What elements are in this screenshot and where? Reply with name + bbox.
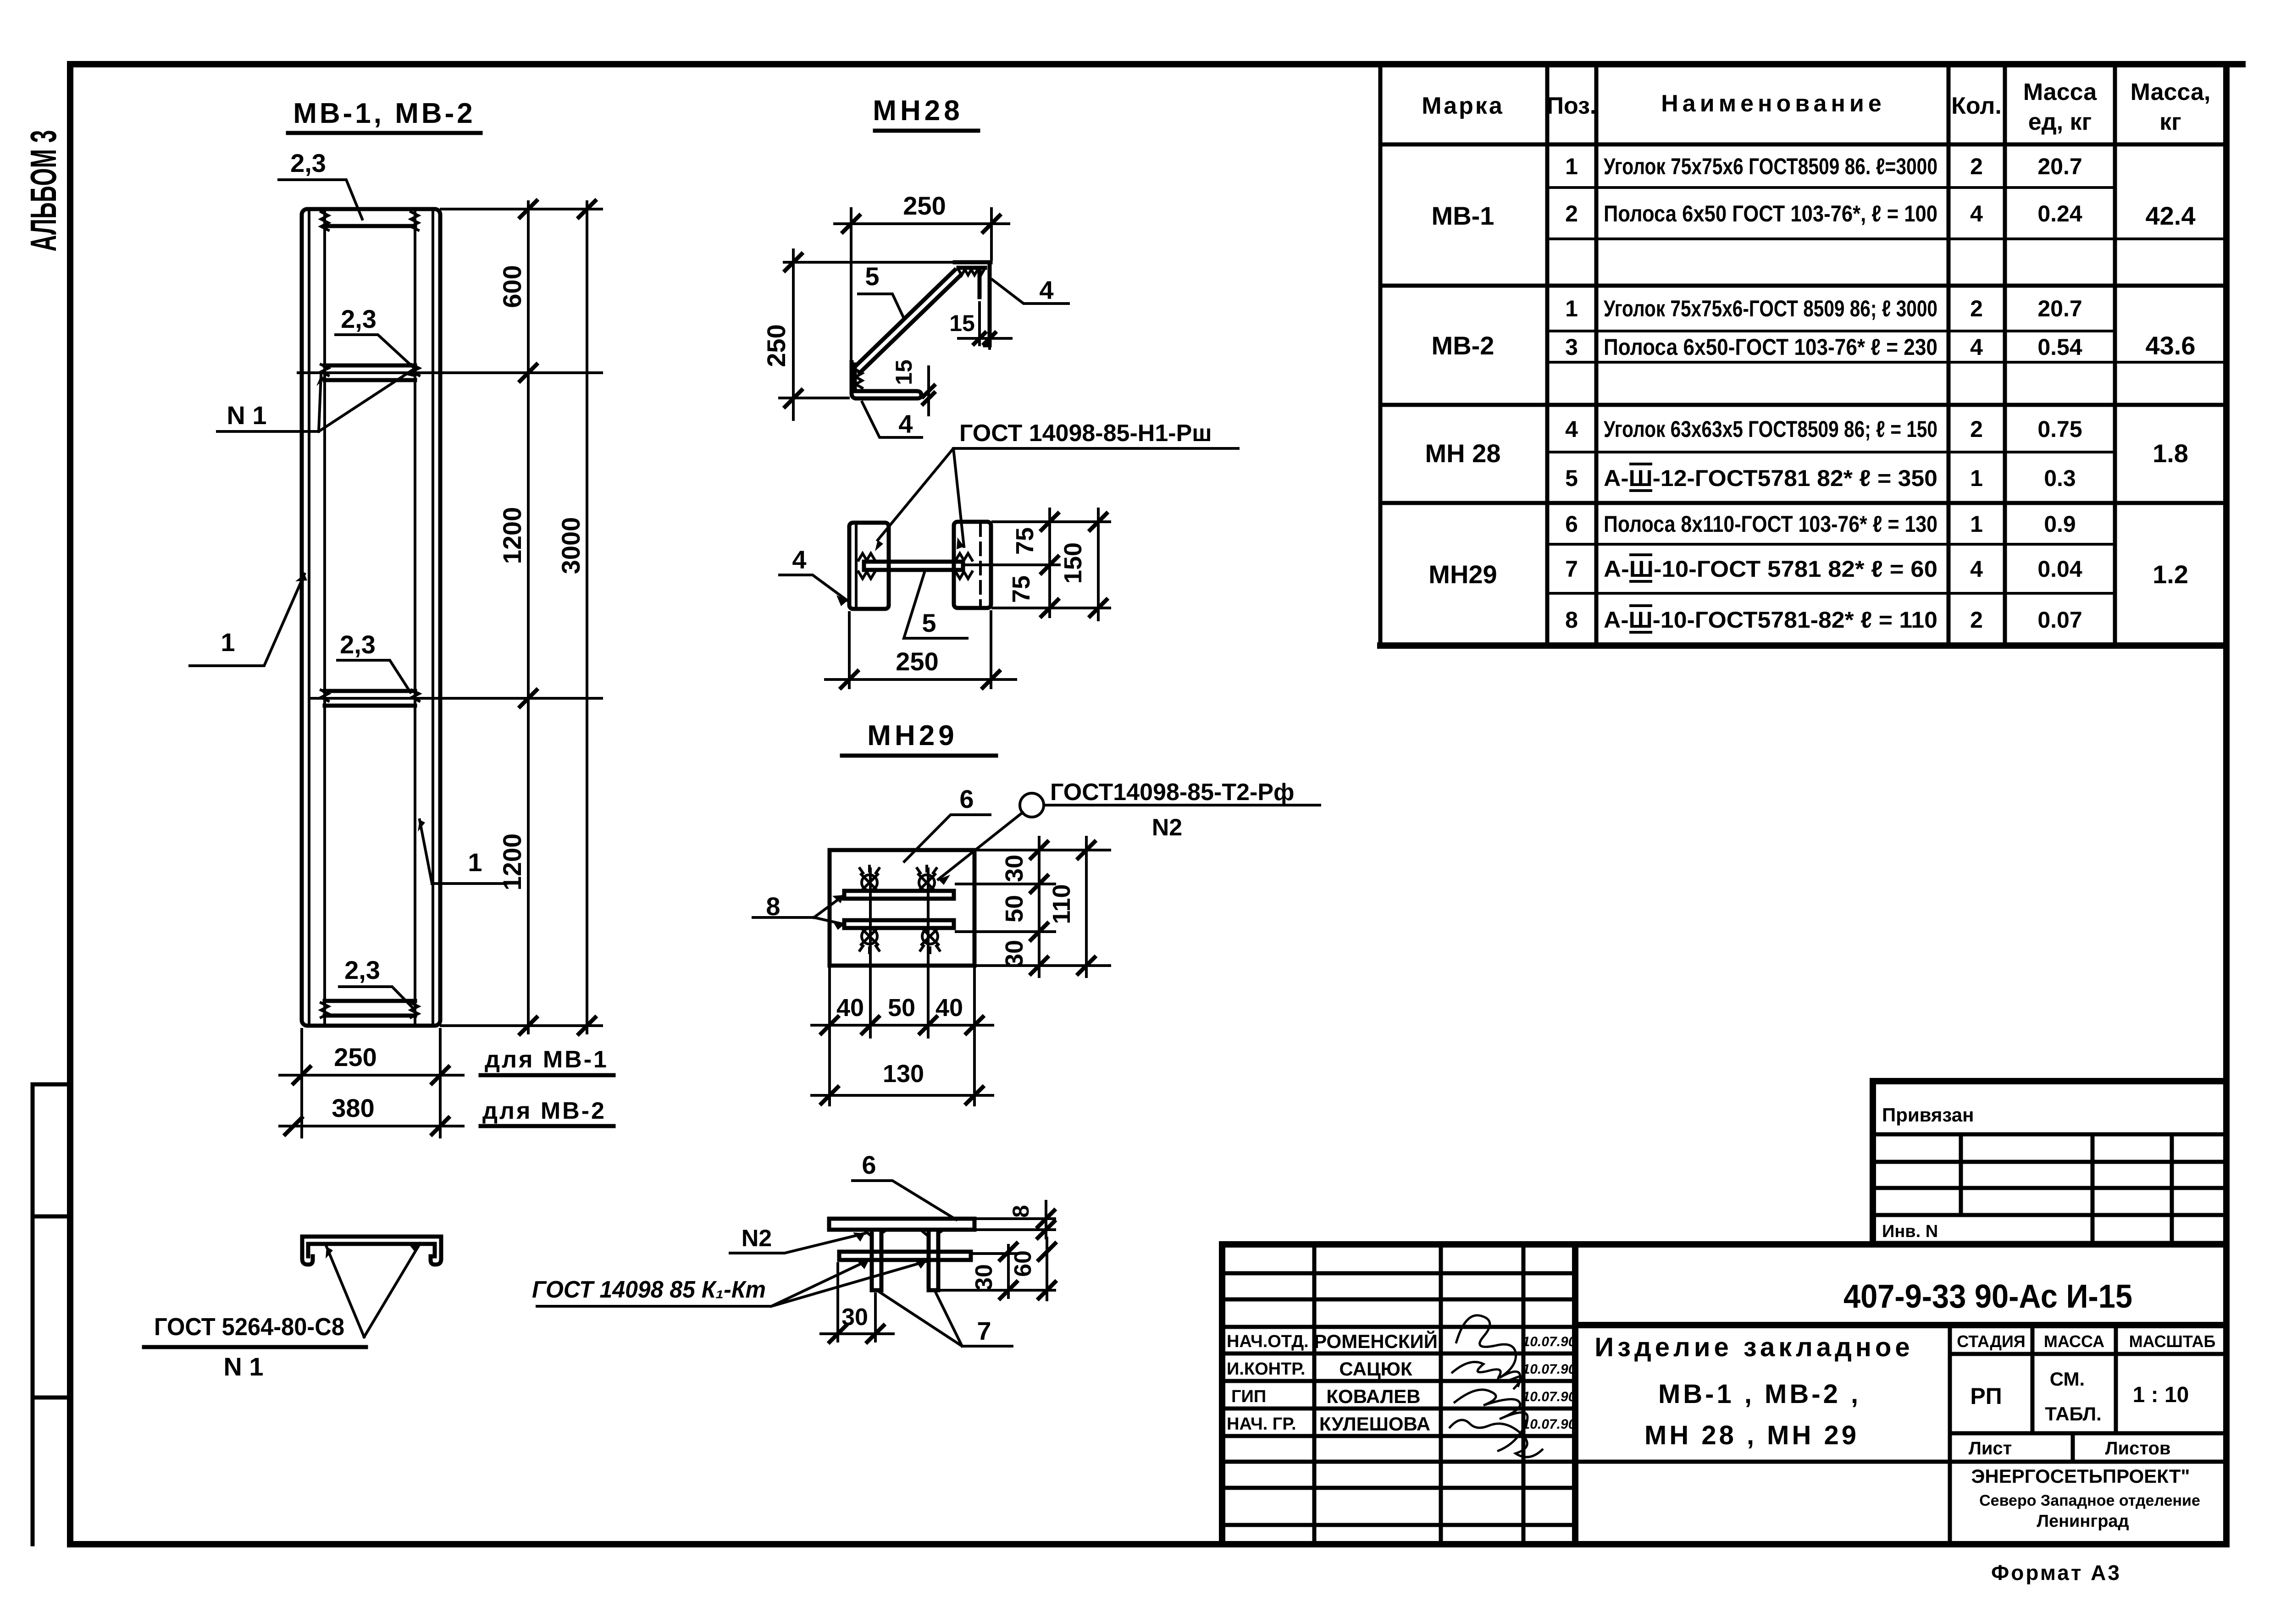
label 2,3 at 600 plate [336,304,413,367]
MB dimension line 3000 [556,201,595,1034]
MN28 plan dim 250 [825,612,1016,688]
MB plate at 600 (pos 2,3) [325,365,415,380]
signatures [1449,1315,1543,1457]
svg-text:Лист: Лист [1969,1438,2012,1458]
svg-text:ед, кг: ед, кг [2028,109,2092,135]
svg-text:30: 30 [841,1304,868,1331]
label for MB-1 [481,1046,614,1075]
svg-text:1: 1 [1565,154,1578,179]
MN29 centerlines through welds [870,869,928,1037]
svg-text:30: 30 [1001,940,1028,967]
svg-text:600: 600 [498,265,526,308]
Privyazan reference box [1873,1081,2226,1244]
svg-text:0.9: 0.9 [2044,511,2076,537]
MN28 weld spec GOST 14098-85-N1-Rsh [875,420,1238,551]
svg-text:Уголок 75x75x6-ГОСТ 8509 86; ℓ: Уголок 75x75x6-ГОСТ 8509 86; ℓ 3000 [1604,296,1937,321]
svg-text:МАССА: МАССА [2044,1332,2104,1351]
svg-text:N2: N2 [1152,814,1182,841]
MN29 right dims 30 50 30 [956,837,1110,977]
svg-text:2: 2 [1970,154,1983,179]
svg-text:МН28: МН28 [873,95,963,127]
svg-text:1: 1 [1565,296,1578,321]
MN29 side view: stud pos7 right [929,1230,938,1290]
MN28 angle pos4 top-right: horizontal flange [955,262,991,268]
MN29 side view: stud pos7 left [872,1230,881,1290]
MN28 angle pos4 bottom-left: vertical flange [852,362,857,398]
MN28 plan label 5 [904,572,967,638]
svg-text:3: 3 [1565,334,1578,360]
svg-text:МН 28: МН 28 [1425,439,1501,468]
parts table: mark column [1425,201,1501,589]
svg-text:75: 75 [1007,575,1035,603]
MB weld hatches at 1800 plate [321,690,419,701]
svg-text:30: 30 [971,1264,997,1291]
MN29 side label N2 [730,1225,865,1253]
svg-text:50: 50 [888,994,915,1022]
title block staff rows [1227,1332,1309,1434]
svg-text:Полоса 6x50-ГОСТ 103-76* ℓ = 2: Полоса 6x50-ГОСТ 103-76* ℓ = 230 [1604,334,1937,360]
MN28 label 4 bottom [862,402,922,438]
svg-text:2,3: 2,3 [344,956,380,984]
svg-text:ГИП: ГИП [1231,1387,1266,1406]
svg-text:Привязан: Привязан [1882,1104,1974,1126]
svg-text:10.07.90: 10.07.90 [1522,1417,1576,1432]
MN29 right dim 110 [1048,837,1095,977]
svg-text:6: 6 [1565,511,1578,537]
svg-text:N 1: N 1 [223,1352,263,1381]
svg-text:Северо Западное отделение: Северо Западное отделение [1979,1492,2200,1509]
N1 bracket leaders [326,1243,420,1337]
MN28 label 4 top-right [992,276,1068,304]
MN29 side label 6 [852,1150,956,1220]
svg-text:3000: 3000 [556,517,585,574]
MN28 diagonal bar pos5 [855,270,960,373]
MN28 plan: right angle pos4 [954,522,991,608]
N1 bracket label GOST 5264-80-C8 [144,1313,366,1381]
svg-text:0.3: 0.3 [2044,465,2076,491]
left margin boxes [33,1084,70,1544]
svg-text:1200: 1200 [498,507,526,564]
parts table: mass column [2146,201,2196,589]
svg-text:Поз.: Поз. [1547,93,1597,119]
svg-text:110: 110 [1048,884,1075,924]
MB plate at 1800 (pos 2,3) [325,691,415,706]
MN29 side dim 8 [977,1201,1055,1238]
svg-text:5: 5 [865,262,879,291]
svg-text:для МВ-1: для МВ-1 [485,1046,609,1073]
svg-text:4: 4 [1565,416,1578,442]
title block left grid [1222,1244,1575,1544]
MN29 side label 7 [880,1292,1012,1346]
svg-text:40: 40 [836,994,864,1022]
svg-text:40: 40 [935,994,963,1022]
svg-text:ТАБЛ.: ТАБЛ. [2045,1403,2102,1425]
svg-text:ГОСТ 14098 85 К₁-Кт: ГОСТ 14098 85 К₁-Кт [532,1276,766,1303]
title block product name [1594,1332,1913,1450]
svg-text:42.4: 42.4 [2146,201,2196,230]
label 1 right [418,820,506,884]
svg-text:МВ-1 , МВ-2 ,: МВ-1 , МВ-2 , [1658,1379,1861,1409]
svg-text:1: 1 [1970,511,1983,537]
svg-text:2,3: 2,3 [341,304,376,333]
svg-text:0.75: 0.75 [2037,416,2082,442]
MB dimension line 600/1200/1200 [498,201,537,1034]
svg-text:7: 7 [977,1316,991,1345]
svg-text:2,3: 2,3 [290,149,326,177]
svg-text:КУЛЕШОВА: КУЛЕШОВА [1319,1413,1430,1435]
svg-text:50: 50 [1001,895,1028,922]
parts table header [1422,79,2210,135]
svg-text:1.2: 1.2 [2153,560,2188,589]
svg-text:5: 5 [1565,465,1578,491]
MB weld hatches at bottom cap [321,1003,418,1017]
MB plate bottom (pos 2,3) [325,1001,415,1016]
MN29 plate pos6 (plan) [830,850,974,966]
svg-text:МАСШТАБ: МАСШТАБ [2129,1332,2216,1351]
label 2,3 top [279,149,362,219]
MN28 dim 15 at top flange [949,303,1011,348]
label 1 left [190,574,307,666]
MN28 dim 15 at foot [891,359,934,415]
svg-text:2: 2 [1970,296,1983,321]
MN29 plug weld circles with cross hatch [860,866,940,953]
svg-text:Листов: Листов [2105,1438,2171,1458]
svg-text:МН29: МН29 [1428,560,1497,589]
svg-text:МВ-1, МВ-2: МВ-1, МВ-2 [293,98,476,129]
svg-text:4: 4 [1970,334,1983,360]
svg-text:6: 6 [959,784,974,813]
svg-text:0.07: 0.07 [2037,607,2082,633]
MN28 label 5 [858,262,903,317]
MN28 angle pos4 top-right: vertical flange [980,262,990,345]
svg-text:Полоса 6x50 ГОСТ 103-76*, ℓ =: Полоса 6x50 ГОСТ 103-76*, ℓ = 100 [1604,201,1937,226]
svg-text:7: 7 [1565,556,1578,582]
svg-text:Масса,: Масса, [2131,79,2211,105]
svg-text:МН29: МН29 [867,720,958,751]
label for MB-2 [481,1098,614,1126]
svg-text:АЛЬБОМ 3: АЛЬБОМ 3 [23,130,64,252]
MN29 upper bar pos8 [844,891,954,899]
svg-text:ГОСТ 5264-80-С8: ГОСТ 5264-80-С8 [154,1313,344,1341]
svg-text:ГОСТ14098-85-Т2-Рф: ГОСТ14098-85-Т2-Рф [1050,779,1295,806]
svg-text:43.6: 43.6 [2146,331,2196,360]
svg-text:0.04: 0.04 [2037,556,2082,582]
svg-text:1.8: 1.8 [2153,439,2188,468]
MN29 side dim 30 bottom [821,1264,893,1342]
svg-text:380: 380 [332,1094,374,1122]
svg-text:Наименование: Наименование [1661,90,1886,117]
svg-text:МВ-2: МВ-2 [1432,331,1495,360]
svg-text:1: 1 [468,848,482,877]
MN29 side dim 30 right [941,1243,1055,1298]
MN29 side dim 60 [1010,1238,1055,1300]
svg-text:8: 8 [1008,1205,1034,1218]
svg-text:250: 250 [334,1043,376,1072]
parts table rows [1565,154,2082,633]
svg-text:10.07.90: 10.07.90 [1522,1362,1576,1377]
svg-text:1: 1 [1970,465,1983,491]
MB weld hatches at 600 plate [321,365,419,376]
svg-text:кг: кг [2159,109,2181,135]
svg-text:8: 8 [1565,607,1578,633]
svg-text:Кол.: Кол. [1951,93,2002,119]
svg-text:НАЧ. ГР.: НАЧ. ГР. [1227,1414,1296,1434]
MN29 weld spec GOST 14098-85-T2-Rf with circle [938,779,1320,885]
svg-text:250: 250 [762,324,791,367]
MN28 plan label 4 [780,545,847,606]
label N1 with leaders [217,369,414,431]
svg-text:15: 15 [949,310,975,336]
MN28 weld hatch under top flange [958,270,984,275]
svg-text:А-Ш-12-ГОСТ5781 82* ℓ = 350: А-Ш-12-ГОСТ5781 82* ℓ = 350 [1604,465,1937,491]
MN29 lower bar pos8 [844,920,954,928]
MN29 side view weld ticks [866,1230,944,1236]
svg-text:N2: N2 [742,1225,772,1252]
label 2,3 at bottom plate [339,956,412,1007]
title block stage/mass/scale grid [1575,1325,2226,1544]
svg-text:МН 28 , МН 29: МН 28 , МН 29 [1644,1420,1859,1450]
svg-text:для МВ-2: для МВ-2 [482,1098,606,1124]
MB bottom dimension 250 [280,1029,463,1137]
svg-text:N 1: N 1 [227,401,266,430]
svg-text:407-9-33 90-Ас И-15: 407-9-33 90-Ас И-15 [1843,1278,2132,1315]
svg-text:20.7: 20.7 [2037,154,2082,179]
svg-text:0.54: 0.54 [2037,334,2082,360]
svg-text:1200: 1200 [498,834,526,891]
svg-text:СТАДИЯ: СТАДИЯ [1957,1332,2026,1351]
svg-text:Полоса 8x110-ГОСТ 103-76* ℓ =: Полоса 8x110-ГОСТ 103-76* ℓ = 130 [1604,511,1937,537]
parts table grid [1380,65,2226,646]
MN28 left dimension 250 [762,250,953,420]
svg-text:15: 15 [891,359,917,385]
svg-text:4: 4 [1970,556,1983,582]
svg-text:САЦЮК: САЦЮК [1339,1358,1412,1380]
MB dimension extension lines right [298,209,602,1026]
MN28 view title [873,95,978,131]
svg-text:РОМЕНСКИЙ: РОМЕНСКИЙ [1314,1330,1438,1352]
svg-text:Формат А3: Формат А3 [1991,1561,2121,1585]
MN29 side weld spec GOST 14098 85 K1-Kt [532,1259,926,1306]
MN29 bottom dim 130 [812,1060,993,1104]
svg-text:Уголок 63x63x5 ГОСТ8509 86; ℓ: Уголок 63x63x5 ГОСТ8509 86; ℓ = 150 [1604,416,1937,442]
svg-text:И.КОНТР.: И.КОНТР. [1227,1359,1305,1379]
svg-text:4: 4 [792,545,806,574]
svg-text:А-Ш-10-ГОСТ5781-82* ℓ = 110: А-Ш-10-ГОСТ5781-82* ℓ = 110 [1604,607,1937,633]
MN29 label 6 (plan) [904,784,990,862]
svg-text:30: 30 [1001,855,1028,882]
MN29 side view: bar pos8 through studs [839,1252,971,1260]
svg-text:А-Ш-10-ГОСТ 5781 82* ℓ = 60: А-Ш-10-ГОСТ 5781 82* ℓ = 60 [1604,556,1937,582]
MN28 top dimension 250 [835,191,1009,362]
svg-text:2,3: 2,3 [340,630,376,659]
MB weld hatches at top cap [321,212,418,230]
svg-text:МВ-1: МВ-1 [1432,201,1495,230]
svg-text:2: 2 [1970,416,1983,442]
svg-text:2: 2 [1565,201,1578,226]
svg-text:Уголок 75x75x6 ГОСТ8509 86. ℓ=: Уголок 75x75x6 ГОСТ8509 86. ℓ=3000 [1604,154,1937,179]
svg-text:КОВАЛЕВ: КОВАЛЕВ [1326,1386,1420,1407]
svg-text:130: 130 [883,1060,924,1088]
svg-text:ЭНЕРГОСЕТЬПРОЕКТ": ЭНЕРГОСЕТЬПРОЕКТ" [1971,1465,2190,1487]
MN29 bottom dims 40 50 40 [812,968,993,1105]
svg-text:РП: РП [1970,1383,2002,1409]
svg-text:4: 4 [1039,276,1053,304]
MN28 plan: bar pos5 [858,553,972,579]
MN28 weld hatch on bottom angle [856,370,862,388]
svg-text:150: 150 [1059,542,1087,584]
svg-text:75: 75 [1011,527,1039,555]
svg-text:0.24: 0.24 [2037,201,2082,226]
label 2,3 at 1800 plate [338,630,410,692]
svg-text:Марка: Марка [1422,93,1504,119]
rebar class III marks [1631,464,1651,632]
svg-text:250: 250 [903,191,946,220]
svg-text:20.7: 20.7 [2037,296,2082,321]
svg-text:ГОСТ 14098-85-Н1-Рш: ГОСТ 14098-85-Н1-Рш [959,420,1212,447]
svg-text:1 : 10: 1 : 10 [2133,1383,2189,1407]
svg-text:1: 1 [221,628,235,657]
svg-text:Масса: Масса [2023,79,2097,105]
MN29 view title [842,720,996,756]
svg-text:Изделие закладное: Изделие закладное [1594,1332,1913,1362]
svg-text:10.07.90: 10.07.90 [1522,1389,1576,1404]
svg-text:5: 5 [922,608,936,637]
MB plate top (pos 2,3) [325,224,415,228]
svg-text:2: 2 [1970,607,1983,633]
svg-text:Инв. N: Инв. N [1882,1222,1938,1241]
svg-text:6: 6 [862,1150,876,1179]
MB bottom dimension 380 [280,1094,463,1134]
MN28 angle pos4 bottom-left: horizontal foot [857,391,921,398]
N1 channel bracket detail [302,1237,441,1265]
svg-text:4: 4 [1970,201,1983,226]
MN28 plan: left angle pos4 [849,523,889,609]
title block outer lines [1222,1244,2226,1544]
svg-text:4: 4 [898,409,913,438]
svg-text:250: 250 [896,647,938,676]
MB-1 MB-2 view title [288,98,481,133]
svg-text:НАЧ.ОТД.: НАЧ.ОТД. [1227,1332,1309,1351]
svg-text:Ленинград: Ленинград [2037,1512,2129,1531]
svg-text:10.07.90: 10.07.90 [1522,1334,1576,1349]
MN28 plan dims 75 75 150 [965,509,1110,620]
MN29 side view: plate pos6 [829,1219,974,1230]
MB column outline (two angle rails) [302,209,440,1026]
MN29 label 8 with leaders [753,892,844,930]
svg-text:СМ.: СМ. [2050,1368,2085,1390]
